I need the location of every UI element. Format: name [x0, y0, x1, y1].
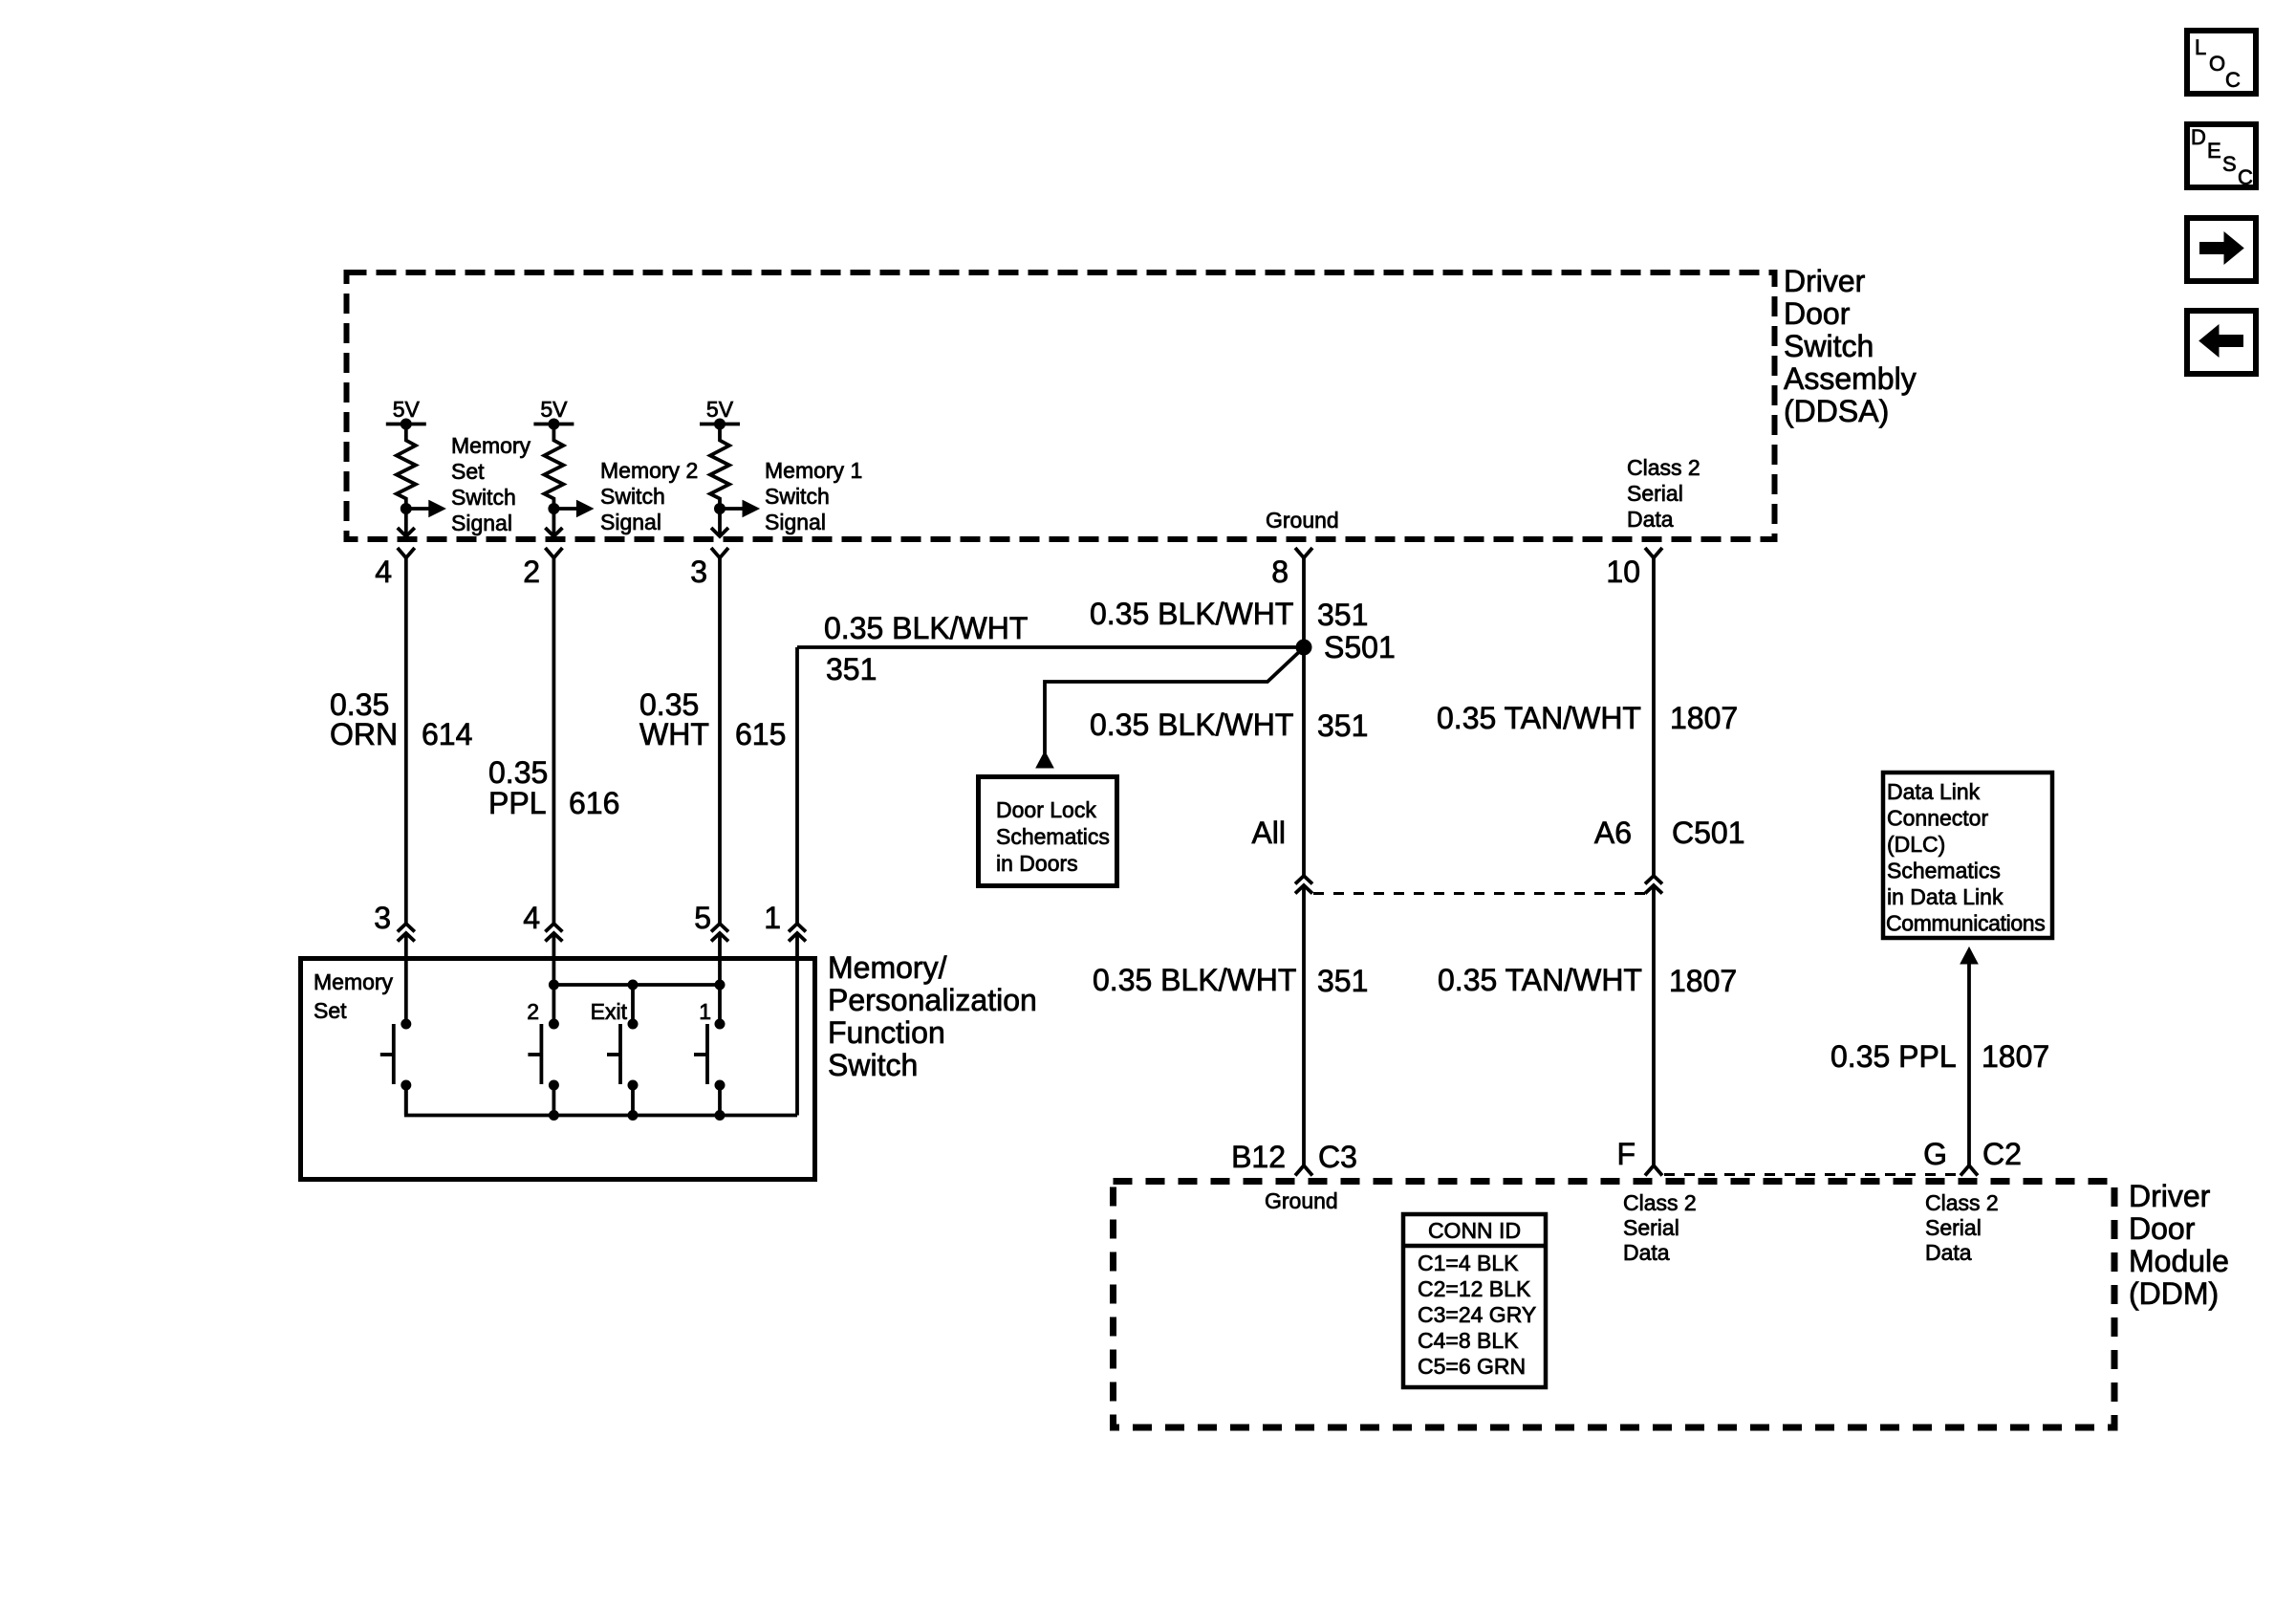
label Memory Set (inside box): [314, 969, 394, 1023]
wire Exit tap down: [631, 985, 635, 1021]
svg-text:3: 3: [374, 901, 391, 935]
wire class 2 serial data 0.35 TAN/WHT 1807 lower: [1652, 885, 1656, 1165]
pushbutton switch Exit: [591, 999, 639, 1116]
svg-text:Door: Door: [1784, 296, 1851, 331]
5V supply rail 1: [386, 397, 426, 430]
wire switch pin 1 riser (0.35 BLK/WHT 351): [795, 647, 799, 924]
wire ground 0.35 BLK/WHT 351 upper: [1302, 558, 1306, 877]
connector pin 4 of memory switch: [523, 901, 562, 942]
connector DDM pin F: [1616, 1137, 1662, 1176]
svg-text:Class 2: Class 2: [1925, 1190, 1999, 1215]
label 0.35 ORN: [330, 687, 398, 751]
svg-text:Memory 1: Memory 1: [765, 458, 862, 483]
svg-text:C: C: [2225, 68, 2241, 92]
svg-text:3: 3: [690, 555, 707, 589]
svg-text:Schematics: Schematics: [1887, 859, 2001, 883]
svg-text:PPL: PPL: [488, 786, 546, 820]
bus junction dot at Exit tap: [628, 980, 639, 991]
svg-text:O: O: [2209, 52, 2225, 76]
in-line connector All (ground wire): [1251, 816, 1312, 894]
connector DDM pin G (C2): [1923, 1137, 2022, 1176]
CONN ID table box: [1403, 1214, 1546, 1387]
connector DDM pin B12 (C3): [1231, 1140, 1357, 1176]
label 1807 (upper): [1670, 701, 1738, 735]
svg-text:F: F: [1616, 1137, 1635, 1171]
label Memory/Personalization Function Switch: [828, 950, 1037, 1082]
pushbutton switch Memory Set: [380, 1019, 412, 1116]
label Driver Door Module (DDM): [2129, 1179, 2229, 1311]
arrowhead to DLC schematics: [1960, 947, 1978, 964]
label 0.35 BLK/WHT (lower): [1093, 963, 1296, 997]
icon button next-page arrow: [2187, 218, 2256, 281]
svg-text:Data: Data: [1627, 507, 1674, 532]
bus wire inside switch (pins 4-5 with Exit tap): [553, 983, 720, 987]
bus junction dot at pin 5 wire: [715, 980, 726, 991]
svg-text:Data: Data: [1925, 1240, 1972, 1265]
svg-text:ORN: ORN: [330, 717, 398, 751]
label Data Link Connector (DLC) Schematics in Data Link Communications: [1886, 779, 2045, 936]
svg-text:Memory 2: Memory 2: [600, 458, 698, 483]
label 0.35 PPL: [1830, 1039, 1957, 1074]
svg-text:Signal: Signal: [765, 510, 826, 534]
svg-text:E: E: [2207, 139, 2221, 163]
svg-text:0.35 BLK/WHT: 0.35 BLK/WHT: [1090, 708, 1293, 742]
svg-text:S: S: [2222, 152, 2237, 176]
svg-text:(DDSA): (DDSA): [1784, 394, 1889, 428]
connector pin 4 of DDSA: [375, 548, 415, 589]
svg-text:8: 8: [1271, 555, 1289, 589]
5V supply rail 3: [700, 397, 740, 430]
down arrow 3 at DDSA boundary: [711, 509, 728, 536]
svg-text:351: 351: [1317, 598, 1368, 632]
label S501: [1324, 630, 1396, 664]
pushbutton switch 2: [527, 999, 559, 1116]
junction dot 3: [714, 503, 726, 514]
svg-text:C501: C501: [1672, 816, 1745, 850]
pushbutton switch 1: [694, 999, 726, 1116]
svg-text:L: L: [2195, 35, 2206, 59]
svg-text:Memory: Memory: [314, 969, 394, 994]
svg-text:Ground: Ground: [1266, 508, 1339, 533]
arrowhead to door lock schematics: [1036, 751, 1053, 768]
svg-text:C3=24 GRY: C3=24 GRY: [1418, 1302, 1536, 1327]
junction dot 1: [401, 503, 412, 514]
svg-text:Serial: Serial: [1627, 481, 1683, 506]
svg-text:Memory: Memory: [451, 433, 531, 458]
svg-text:Switch: Switch: [451, 485, 516, 510]
label circuit 615: [735, 717, 786, 751]
svg-text:Serial: Serial: [1623, 1215, 1679, 1240]
svg-text:Schematics: Schematics: [996, 824, 1110, 849]
svg-text:Signal: Signal: [451, 511, 512, 535]
svg-text:Connector: Connector: [1887, 806, 1988, 831]
svg-text:0.35 TAN/WHT: 0.35 TAN/WHT: [1438, 963, 1642, 997]
Driver Door Switch Assembly (DDSA) dashed box: [347, 272, 1775, 539]
svg-text:A6: A6: [1594, 816, 1632, 850]
5V supply rail 2: [533, 397, 574, 430]
dashed connector plane line C1-C2 of DDM: [1664, 1173, 1960, 1176]
junction dot 2: [548, 503, 559, 514]
svg-text:5: 5: [694, 901, 711, 935]
svg-text:C1=4 BLK: C1=4 BLK: [1418, 1251, 1519, 1275]
label Memory Set Switch Signal: [451, 433, 531, 535]
svg-text:Set: Set: [451, 459, 485, 484]
svg-text:1807: 1807: [1669, 964, 1737, 998]
svg-text:0.35 BLK/WHT: 0.35 BLK/WHT: [824, 611, 1028, 645]
svg-text:0.35 TAN/WHT: 0.35 TAN/WHT: [1437, 701, 1641, 735]
connector pin 3 of DDSA: [690, 548, 728, 589]
dashed connector plane line at C501: [1313, 892, 1645, 895]
bottom bus junction dot (switch 1): [715, 1110, 726, 1121]
wire DDSA pin 4 to switch pin 3 (0.35 ORN 614): [404, 558, 408, 925]
svg-text:Communications: Communications: [1886, 911, 2045, 936]
svg-text:1: 1: [699, 999, 711, 1024]
svg-text:Ground: Ground: [1265, 1188, 1338, 1213]
wire DDSA pin 3 to switch pin 5 (0.35 WHT 615): [718, 558, 722, 925]
svg-text:616: 616: [569, 786, 619, 820]
svg-text:Exit: Exit: [591, 999, 628, 1024]
connector pin 1 of memory switch: [764, 901, 806, 942]
svg-text:Serial: Serial: [1925, 1215, 1982, 1240]
svg-text:C2: C2: [1982, 1137, 2022, 1171]
splice S501 dot: [1296, 640, 1312, 656]
label 351 (horizontal run): [826, 652, 877, 686]
wire branch S501 to door lock schematics: [1045, 651, 1300, 753]
svg-text:All: All: [1251, 816, 1286, 850]
wire 0.35 PPL 1807 to DLC: [1967, 962, 1971, 1164]
label 0.35 TAN/WHT (lower): [1438, 963, 1642, 997]
label 0.35 WHT: [639, 687, 709, 751]
svg-text:Door Lock: Door Lock: [996, 797, 1096, 822]
svg-text:Assembly: Assembly: [1784, 361, 1917, 396]
label Memory 1 Switch Signal: [765, 458, 862, 534]
svg-text:Signal: Signal: [600, 510, 661, 534]
label 1807 (lower): [1669, 964, 1737, 998]
svg-text:Switch: Switch: [600, 484, 665, 509]
svg-text:Set: Set: [314, 998, 347, 1023]
data link connector reference box: [1883, 773, 2052, 938]
svg-text:0.35: 0.35: [488, 755, 548, 790]
label Class 2 Serial Data (DDSA pin 10): [1627, 455, 1700, 532]
svg-text:Module: Module: [2129, 1244, 2229, 1278]
icon button DESC: [2187, 124, 2256, 189]
svg-text:in Data Link: in Data Link: [1887, 884, 2004, 909]
svg-text:351: 351: [1317, 964, 1368, 998]
svg-text:Data: Data: [1623, 1240, 1670, 1265]
svg-text:1807: 1807: [1670, 701, 1738, 735]
svg-text:4: 4: [523, 901, 540, 935]
label 0.35 BLK/WHT (above S501): [1090, 597, 1293, 631]
wire into switch pin 4: [552, 933, 556, 1021]
svg-text:1: 1: [764, 901, 781, 935]
svg-text:Door: Door: [2129, 1211, 2196, 1246]
label 351 (mid): [1317, 708, 1368, 743]
svg-text:Switch: Switch: [765, 484, 830, 509]
svg-text:Data Link: Data Link: [1887, 779, 1981, 804]
svg-text:615: 615: [735, 717, 786, 751]
svg-text:Class 2: Class 2: [1627, 455, 1700, 480]
label Memory 2 Switch Signal: [600, 458, 698, 534]
svg-text:CONN ID: CONN ID: [1428, 1218, 1521, 1243]
connector pin 8 of DDSA: [1271, 548, 1312, 589]
signal arrow 2 (to module logic): [553, 501, 593, 517]
label 1807 (PPL wire): [1982, 1039, 2049, 1074]
label 351 (lower): [1317, 964, 1368, 998]
wire into switch pin 5: [718, 933, 722, 1021]
svg-text:Memory/: Memory/: [828, 950, 947, 985]
svg-text:Driver: Driver: [2129, 1179, 2211, 1213]
svg-text:Switch: Switch: [828, 1048, 918, 1082]
svg-text:Class 2: Class 2: [1623, 1190, 1697, 1215]
label Ground (DDSA pin 8): [1266, 508, 1339, 533]
svg-text:614: 614: [422, 717, 472, 751]
icon button LOC: [2187, 31, 2256, 94]
svg-text:Personalization: Personalization: [828, 983, 1037, 1017]
bottom bus wire inside switch: [406, 1090, 797, 1116]
wire into switch pin 1: [795, 933, 799, 1116]
connector pin 10 of DDSA: [1606, 548, 1662, 589]
in-line connector C501 pin A6: [1594, 816, 1745, 894]
svg-text:C3: C3: [1318, 1140, 1357, 1174]
svg-text:(DLC): (DLC): [1887, 832, 1945, 857]
svg-text:Function: Function: [828, 1015, 945, 1050]
label CONN ID rows: [1418, 1251, 1536, 1379]
label CONN ID header: [1428, 1218, 1521, 1243]
connector pin 2 of DDSA: [523, 548, 562, 589]
svg-text:0.35 BLK/WHT: 0.35 BLK/WHT: [1093, 963, 1296, 997]
wire ground 0.35 BLK/WHT 351 lower: [1302, 885, 1306, 1165]
svg-text:(DDM): (DDM): [2129, 1276, 2219, 1311]
svg-text:0.35 PPL: 0.35 PPL: [1830, 1039, 1957, 1074]
signal arrow 1 (to module logic): [406, 501, 445, 517]
svg-text:S501: S501: [1324, 630, 1396, 664]
resistor R3 (pull-up): [710, 425, 729, 510]
svg-text:2: 2: [523, 555, 540, 589]
label circuit 616: [569, 786, 619, 820]
svg-text:351: 351: [826, 652, 877, 686]
wire into switch pin 3: [404, 933, 408, 1021]
label 0.35 BLK/WHT (horizontal run): [824, 611, 1028, 645]
svg-text:D: D: [2191, 125, 2206, 149]
svg-text:5V: 5V: [706, 397, 734, 422]
down arrow 2 at DDSA boundary: [545, 509, 562, 536]
svg-text:4: 4: [375, 555, 392, 589]
bottom bus junction dot (switch 2): [549, 1110, 559, 1121]
signal arrow 3 (to module logic): [720, 501, 759, 517]
label Class 2 Serial Data (DDM pin F): [1623, 1190, 1697, 1265]
svg-text:5V: 5V: [540, 397, 568, 422]
label circuit 614: [422, 717, 472, 751]
label 0.35 BLK/WHT (mid): [1090, 708, 1293, 742]
svg-text:C4=8 BLK: C4=8 BLK: [1418, 1328, 1519, 1353]
svg-text:Switch: Switch: [1784, 329, 1874, 363]
label 0.35 PPL: [488, 755, 548, 820]
svg-text:WHT: WHT: [639, 717, 709, 751]
svg-text:C5=6 GRN: C5=6 GRN: [1418, 1354, 1526, 1379]
svg-text:10: 10: [1606, 555, 1640, 589]
bus junction dot at pin 4 wire: [549, 980, 559, 991]
resistor R1 (pull-up): [397, 425, 416, 510]
wire horizontal 0.35 BLK/WHT 351 to S501: [797, 645, 1304, 649]
resistor R2 (pull-up): [544, 425, 563, 510]
icon button previous-page arrow: [2187, 311, 2256, 374]
bottom bus junction dot (Exit): [628, 1110, 639, 1121]
label Door Lock Schematics in Doors: [996, 797, 1110, 876]
Driver Door Module (DDM) dashed box: [1114, 1182, 2115, 1428]
Memory/Personalization Function Switch box: [301, 959, 815, 1180]
svg-text:5V: 5V: [393, 397, 421, 422]
svg-text:Driver: Driver: [1784, 264, 1866, 298]
svg-text:2: 2: [527, 999, 539, 1024]
label Ground (DDM pin B12): [1265, 1188, 1338, 1213]
svg-text:0.35 BLK/WHT: 0.35 BLK/WHT: [1090, 597, 1293, 631]
svg-text:G: G: [1923, 1137, 1947, 1171]
svg-text:351: 351: [1317, 708, 1368, 743]
label 0.35 TAN/WHT (upper): [1437, 701, 1641, 735]
door lock schematics reference box: [979, 777, 1117, 886]
connector pin 3 of memory switch: [374, 901, 415, 942]
label Class 2 Serial Data (DDM pin G): [1925, 1190, 1999, 1265]
down arrow 1 at DDSA boundary: [398, 509, 415, 536]
label Driver Door Switch Assembly (DDSA): [1784, 264, 1917, 428]
svg-text:C2=12 BLK: C2=12 BLK: [1418, 1276, 1531, 1301]
svg-text:B12: B12: [1231, 1140, 1286, 1174]
connector pin 5 of memory switch: [694, 901, 728, 942]
label 351 (above S501): [1317, 598, 1368, 632]
wire class 2 serial data 0.35 TAN/WHT 1807 upper: [1652, 558, 1656, 877]
svg-text:C: C: [2238, 165, 2253, 189]
svg-text:1807: 1807: [1982, 1039, 2049, 1074]
svg-text:in Doors: in Doors: [996, 851, 1078, 876]
wire DDSA pin 2 to switch pin 4 (0.35 PPL 616): [552, 558, 556, 925]
